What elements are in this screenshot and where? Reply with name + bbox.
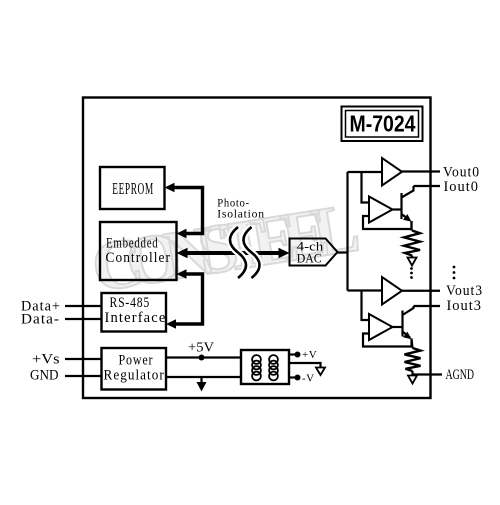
svg-text:RS-485: RS-485 (110, 295, 151, 311)
svg-text:+Vs: +Vs (32, 352, 60, 368)
svg-text:Iout3: Iout3 (447, 298, 483, 314)
svg-text:Interface: Interface (105, 310, 167, 326)
svg-text:Isolation: Isolation (217, 207, 264, 221)
svg-text:DAC: DAC (297, 251, 322, 266)
svg-text:+V: +V (302, 349, 317, 361)
svg-text:EEPROM: EEPROM (112, 179, 154, 198)
svg-text:Regulator: Regulator (104, 368, 165, 384)
svg-text:M-7024: M-7024 (350, 111, 416, 137)
svg-text:AGND: AGND (446, 367, 475, 383)
svg-text:Power: Power (119, 353, 154, 369)
svg-text:Data-: Data- (21, 312, 60, 328)
svg-text:Controller: Controller (106, 250, 172, 266)
svg-text:Vout3: Vout3 (446, 283, 483, 299)
svg-text:Iout0: Iout0 (444, 179, 480, 195)
svg-text:GND: GND (30, 368, 59, 384)
svg-text:-V: -V (302, 373, 315, 385)
svg-text:+5V: +5V (188, 340, 214, 355)
